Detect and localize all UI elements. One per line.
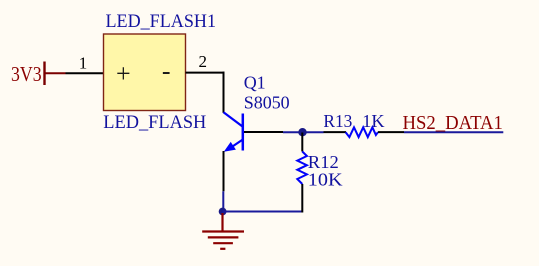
- svg-text:LED_FLASH: LED_FLASH: [103, 113, 206, 133]
- ground stem: [221, 213, 223, 231]
- svg-text:1K: 1K: [362, 111, 385, 131]
- svg-text:Q1: Q1: [244, 73, 266, 93]
- wire ground junction to R12 bottom: [223, 211, 303, 213]
- svg-text:10K: 10K: [308, 170, 343, 190]
- transistor Q1 emitter arrowhead: [224, 142, 236, 152]
- svg-text:1: 1: [79, 53, 88, 72]
- svg-text:R13: R13: [323, 111, 352, 131]
- resistor R12 bottom pin: [301, 184, 303, 213]
- ground bar 1: [202, 230, 244, 232]
- power port 3V3 stub wire: [44, 72, 66, 74]
- pin 1 of U_LED_FLASH: [66, 72, 105, 74]
- transistor Q1 collector diagonal: [224, 112, 243, 126]
- resistor R12 zigzag: [297, 152, 307, 185]
- emitter pin of Q1: [223, 151, 225, 191]
- svg-text:S8050: S8050: [244, 92, 290, 112]
- resistor R13 right pin: [378, 131, 404, 133]
- svg-text:+: +: [116, 59, 131, 88]
- transistor Q1 base bar: [242, 114, 245, 151]
- resistor R13 left pin: [324, 131, 347, 133]
- wire pin2 corner down to Q1 collector: [223, 72, 225, 113]
- svg-text:HS2_DATA1: HS2_DATA1: [403, 112, 503, 134]
- component body LED_FLASH (yellow box): [104, 34, 186, 111]
- svg-text:2: 2: [199, 52, 208, 71]
- svg-text:3V3: 3V3: [11, 62, 42, 86]
- base pin of Q1: [244, 131, 283, 133]
- transistor Q1 emitter diagonal: [228, 140, 243, 150]
- svg-text:LED_FLASH1: LED_FLASH1: [106, 12, 217, 32]
- wire base to junction: [283, 131, 324, 133]
- ground bar 2: [208, 236, 239, 238]
- ground bar 4: [220, 248, 225, 250]
- wire emitter to ground junction: [222, 191, 224, 211]
- resistor R13 zigzag: [346, 127, 378, 137]
- wire to net label HS2_DATA1: [404, 131, 503, 133]
- svg-text:-: -: [162, 57, 171, 86]
- ground bar 3: [213, 242, 233, 244]
- resistor R12 top pin: [301, 133, 303, 152]
- pin 2 of U_LED_FLASH: [186, 72, 225, 74]
- junction node base/R12/R13: [298, 128, 306, 136]
- power port 3V3 bar: [43, 62, 45, 86]
- junction node ground: [219, 208, 227, 216]
